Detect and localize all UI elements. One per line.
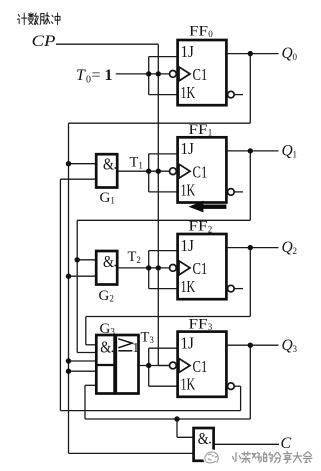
wire Q0 output line bbox=[226, 53, 278, 55]
wire FF2 1K stub bbox=[149, 288, 178, 290]
wire FF0 1K stub bbox=[149, 94, 178, 96]
wire Q3bar left vertical up bbox=[59, 179, 61, 410]
wire carry output to C bbox=[214, 443, 279, 445]
wire G2 input from Q1 bbox=[77, 259, 96, 261]
svg-text:&: & bbox=[100, 338, 111, 357]
FF2 Qbar bubble bbox=[228, 285, 235, 292]
wire carry gate input1 bbox=[177, 436, 194, 438]
node CP junction FF2 bbox=[156, 265, 161, 270]
node T0 to JK bracket FF0 bbox=[146, 71, 151, 76]
hanzi CHONG (rush) of title bbox=[51, 13, 60, 25]
svg-text:T3: T3 bbox=[141, 329, 155, 345]
watermark hanzi DA bbox=[293, 452, 301, 462]
svg-text:FF: FF bbox=[189, 122, 208, 138]
wire Q0 feedback left vertical bbox=[68, 123, 70, 453]
wire T3 from G3 to FF3 bbox=[139, 365, 170, 367]
annotation arrow on FF1 bottom edge bbox=[189, 201, 227, 213]
svg-text:1J: 1J bbox=[181, 139, 195, 158]
and-gate G1 body bbox=[96, 154, 117, 187]
svg-text:1K: 1K bbox=[181, 83, 196, 102]
FF2 dynamic triangle bbox=[179, 261, 190, 275]
svg-text:FF: FF bbox=[189, 316, 208, 332]
watermark logo chick bbox=[205, 452, 218, 463]
or symbol G3 bbox=[118, 339, 132, 351]
svg-text:3: 3 bbox=[208, 322, 213, 332]
node Q3 output junction bbox=[248, 343, 253, 348]
wire CP horizontal bbox=[56, 43, 158, 45]
svg-text:1: 1 bbox=[208, 128, 213, 138]
wire Q3bar down bbox=[240, 386, 242, 410]
svg-text:2: 2 bbox=[208, 224, 213, 234]
wire CP stub to FF3 clock bbox=[158, 365, 169, 367]
svg-text:1: 1 bbox=[105, 67, 113, 84]
svg-text:Q: Q bbox=[282, 143, 293, 160]
wire Q2bar stub bbox=[235, 288, 243, 290]
wire Q0 feedback across bbox=[69, 122, 251, 124]
svg-text:Q: Q bbox=[282, 239, 293, 256]
wire G3 input5 from Q3 bbox=[85, 384, 96, 386]
wire G3 input2 from Q1 bbox=[77, 352, 96, 354]
watermark hanzi FEN bbox=[274, 452, 281, 462]
flip-flop FF0 body bbox=[178, 40, 227, 105]
svg-text:G2: G2 bbox=[99, 288, 114, 304]
watermark hanzi XIAO bbox=[233, 453, 241, 462]
node Q0 to G3 upper bbox=[66, 358, 71, 363]
hanzi JI (count) of title bbox=[18, 13, 27, 24]
wire G3 input3 from Q0 bbox=[69, 360, 97, 362]
FF1 Qbar bubble bbox=[228, 189, 235, 196]
FF3 Qbar bubble bbox=[228, 383, 235, 390]
svg-text:1K: 1K bbox=[181, 375, 196, 394]
hanzi MAI (pulse-vein) of title bbox=[40, 13, 50, 25]
node T2 to JK bracket FF2 bbox=[146, 265, 151, 270]
svg-text:2: 2 bbox=[293, 246, 298, 256]
svg-text:G3: G3 bbox=[100, 321, 116, 337]
and-gate G2 body bbox=[96, 251, 117, 285]
svg-text:1J: 1J bbox=[181, 236, 195, 255]
FF0 dynamic triangle bbox=[179, 67, 190, 81]
svg-text:1: 1 bbox=[132, 340, 139, 355]
wire Q2 feedback down bbox=[249, 248, 251, 317]
svg-text:&: & bbox=[103, 252, 114, 271]
svg-text:1J: 1J bbox=[181, 333, 195, 352]
watermark hanzi XIANG bbox=[283, 452, 291, 463]
svg-text:0: 0 bbox=[293, 52, 298, 62]
wire Q3bar across bottom bbox=[60, 410, 240, 412]
node Q0 to G1 bbox=[66, 161, 71, 166]
node CP junction FF1 bbox=[156, 169, 161, 174]
wire G3 input4 from Q0 bbox=[69, 370, 97, 372]
wire Q0bar stub bbox=[235, 94, 243, 96]
svg-text:=: = bbox=[92, 67, 101, 84]
wire G2 input from Q0 bbox=[69, 275, 97, 277]
wire FF3 1J stub bbox=[149, 347, 178, 349]
wire FF0 JK bracket vertical bbox=[148, 57, 150, 95]
wire Q3bar stub from FF3 bbox=[235, 385, 241, 387]
wire T0 input line bbox=[116, 73, 170, 75]
wire Q0 bottom run to carry gate bbox=[69, 452, 194, 454]
svg-text:0: 0 bbox=[86, 74, 91, 85]
wire Q0 feedback down bbox=[249, 54, 251, 124]
wire Q3 feedback across bbox=[85, 418, 250, 420]
wire FF1 1K stub bbox=[149, 191, 178, 193]
svg-text:1K: 1K bbox=[181, 277, 196, 296]
wire Q2 output line bbox=[226, 247, 278, 249]
svg-text:CP: CP bbox=[32, 33, 56, 50]
svg-text:0: 0 bbox=[208, 29, 213, 39]
node Q1 to G2 bbox=[75, 257, 80, 262]
wire FF1 1J stub bbox=[149, 153, 178, 155]
svg-text:FF: FF bbox=[189, 24, 208, 40]
wire G1 input from Q3bar bbox=[60, 178, 96, 180]
node Q3 to carry gate bbox=[174, 416, 179, 421]
wire Q1 feedback down bbox=[249, 151, 251, 220]
wire FF2 JK bracket vertical bbox=[148, 251, 150, 289]
gate G3 AND section body bbox=[96, 335, 114, 394]
wire Q3 output line bbox=[226, 344, 278, 346]
wire Q3 feedback up to G3 bbox=[84, 385, 86, 419]
wire Q1bar stub bbox=[235, 191, 243, 193]
wire FF2 1J stub bbox=[149, 250, 178, 252]
gate G3 OR section body bbox=[116, 335, 139, 394]
wire G3 input1 from Q2 bbox=[86, 344, 97, 346]
wire T2 from G2 to FF2 bbox=[117, 267, 169, 269]
wire Q2 feedback left vertical bbox=[85, 317, 87, 345]
hanzi SHU (number) of title bbox=[28, 13, 38, 25]
wire FF0 1J stub bbox=[149, 56, 178, 58]
node Q0 to G2 bbox=[66, 274, 71, 279]
svg-text:C1: C1 bbox=[193, 163, 208, 182]
node T1 to JK bracket FF1 bbox=[146, 169, 151, 174]
svg-text:1K: 1K bbox=[181, 180, 196, 199]
watermark logo halo bbox=[203, 449, 220, 466]
node Q0 output junction bbox=[248, 51, 253, 56]
watermark hanzi DE bbox=[264, 452, 273, 462]
svg-text:T: T bbox=[76, 67, 86, 84]
wire Q3 tap down to carry gate bbox=[176, 419, 178, 437]
wire FF1 JK bracket vertical bbox=[148, 154, 150, 192]
gate G3 cell divider bbox=[96, 364, 114, 366]
svg-text:G1: G1 bbox=[100, 190, 115, 206]
node CP junction FF0 bbox=[156, 71, 161, 76]
svg-text:C1: C1 bbox=[193, 259, 208, 278]
svg-text:C: C bbox=[281, 435, 292, 452]
svg-text:Q: Q bbox=[282, 337, 293, 354]
wire FF3 1K stub bbox=[149, 385, 178, 387]
svg-text:3: 3 bbox=[293, 344, 298, 354]
wire Q2 feedback across bbox=[86, 316, 251, 318]
wire T1 from G1 to FF1 bbox=[117, 170, 169, 172]
svg-text:Q: Q bbox=[282, 45, 293, 62]
and-gate carry body bbox=[194, 428, 214, 461]
svg-text:1J: 1J bbox=[181, 42, 195, 61]
FF1 dynamic triangle bbox=[179, 164, 190, 178]
FF3 dynamic triangle bbox=[179, 359, 190, 373]
wire FF3 JK bracket vertical bbox=[148, 348, 150, 386]
wire CP vertical distribution bbox=[157, 44, 159, 365]
watermark hanzi HUI bbox=[304, 452, 312, 463]
wire G1 input from Q0 bbox=[69, 163, 97, 165]
svg-text:&: & bbox=[103, 154, 114, 173]
svg-text:T2: T2 bbox=[128, 249, 141, 265]
svg-text:&: & bbox=[198, 429, 209, 448]
node Q0 to G3 lower bbox=[66, 369, 71, 374]
FF0 Qbar bubble bbox=[228, 91, 235, 98]
svg-text:FF: FF bbox=[189, 219, 208, 235]
flip-flop FF3 body bbox=[178, 332, 227, 397]
watermark hanzi CAI bbox=[242, 452, 251, 463]
FF0 clock bubble bbox=[170, 71, 177, 78]
svg-text:1: 1 bbox=[293, 150, 298, 160]
FF3 clock bubble bbox=[170, 362, 177, 369]
flip-flop FF1 body bbox=[178, 137, 227, 202]
flip-flop FF2 body bbox=[178, 234, 227, 299]
wire Q1 feedback left vertical bbox=[76, 220, 78, 352]
node T3 to JK bracket FF3 bbox=[146, 363, 151, 368]
node Q1 output junction bbox=[248, 148, 253, 153]
wire Q1 output line bbox=[226, 150, 278, 152]
svg-text:C1: C1 bbox=[193, 357, 208, 376]
FF2 clock bubble bbox=[170, 265, 177, 272]
FF1 clock bubble bbox=[170, 168, 177, 175]
svg-text:T1: T1 bbox=[130, 154, 143, 170]
wire Q3 feedback down bbox=[249, 345, 251, 419]
watermark hanzi JI (chicken) bbox=[252, 453, 261, 463]
node Q2 output junction bbox=[248, 245, 253, 250]
wire Q1 feedback across bbox=[77, 219, 250, 221]
svg-text:C1: C1 bbox=[193, 65, 208, 84]
